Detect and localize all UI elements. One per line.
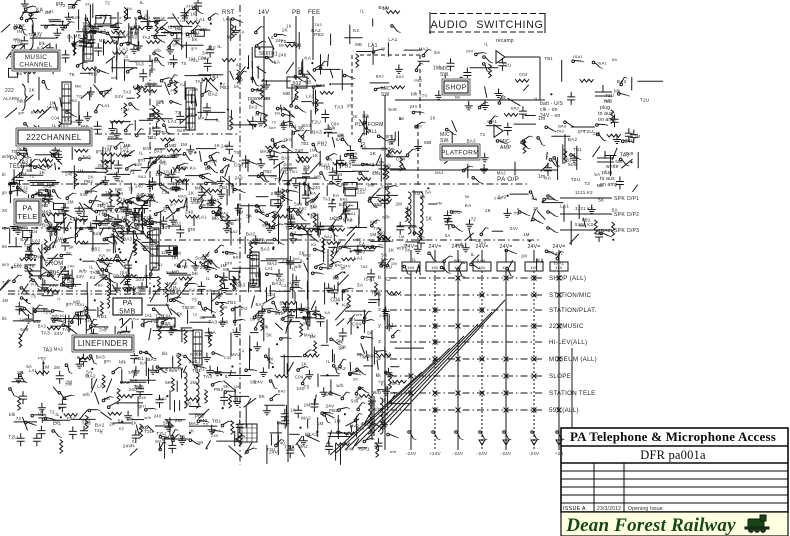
- resistor: [111, 31, 125, 34]
- ground: [233, 327, 241, 336]
- svg-text:C04: C04: [519, 72, 528, 77]
- svg-text:LA1: LA1: [119, 47, 128, 53]
- switch: [172, 187, 184, 190]
- svg-text:5A: 5A: [118, 419, 125, 425]
- svg-text:2M: 2M: [98, 163, 105, 168]
- resistor: [18, 397, 21, 411]
- switch: [62, 324, 73, 330]
- svg-text:-24V: -24V: [406, 451, 417, 456]
- resistor: [152, 105, 155, 119]
- svg-text:MB: MB: [99, 38, 106, 43]
- wire: [166, 209, 179, 219]
- wire: [29, 275, 53, 277]
- wire: [111, 59, 113, 72]
- switch: [144, 218, 153, 226]
- ground: [208, 425, 216, 434]
- svg-text:1M: 1M: [20, 172, 27, 177]
- wire: [24, 238, 28, 244]
- switch: [344, 154, 356, 157]
- capacitor: [46, 43, 54, 56]
- junction: [121, 421, 123, 423]
- resistor: [333, 162, 347, 165]
- wire: [60, 217, 66, 225]
- resistor: [359, 394, 373, 397]
- wire: [71, 418, 95, 420]
- svg-text:MA2: MA2: [41, 209, 51, 214]
- switch: [212, 211, 224, 217]
- wire: [184, 277, 192, 286]
- wire: [263, 318, 265, 341]
- svg-text:BA3: BA3: [558, 123, 567, 128]
- wire: [247, 398, 251, 406]
- svg-text:5K: 5K: [465, 194, 470, 199]
- wire: [151, 35, 166, 37]
- svg-text:blk: blk: [41, 246, 48, 251]
- switch: [234, 188, 246, 193]
- svg-text:5K: 5K: [177, 312, 183, 317]
- switch: [14, 27, 26, 31]
- svg-text:blk: blk: [417, 237, 424, 242]
- wire: [332, 137, 335, 148]
- capacitor: [312, 306, 320, 319]
- wire: [31, 25, 33, 34]
- switch: [159, 183, 170, 189]
- capacitor: [80, 34, 88, 47]
- svg-text:blk: blk: [305, 432, 312, 437]
- wire: [206, 372, 236, 374]
- resistor: [158, 326, 161, 340]
- resistor: [285, 44, 299, 47]
- switch: [189, 439, 200, 445]
- svg-text:AUDIO SWITCHING: AUDIO SWITCHING: [431, 19, 544, 31]
- svg-text:72: 72: [49, 410, 55, 415]
- wire: [144, 158, 154, 160]
- switch: [392, 330, 401, 338]
- wire: [87, 309, 97, 311]
- svg-text:240: 240: [154, 413, 162, 418]
- wire: [34, 310, 51, 312]
- junction: [350, 250, 352, 252]
- component box: [23, 230, 32, 237]
- ground: [149, 365, 157, 374]
- resistor: [74, 173, 77, 187]
- svg-text:KA: KA: [379, 160, 385, 165]
- capacitor: [321, 110, 329, 123]
- svg-text:KA: KA: [209, 330, 216, 336]
- resistor: [117, 388, 120, 402]
- wire: [135, 18, 137, 35]
- svg-text:ALL: ALL: [368, 129, 378, 135]
- switch: [45, 53, 57, 56]
- switch: [212, 352, 224, 356]
- svg-text:IL: IL: [271, 35, 275, 40]
- junction: [94, 299, 96, 301]
- switch: [330, 261, 341, 267]
- switch: [20, 11, 27, 20]
- resistor: [231, 421, 234, 435]
- wire: [151, 60, 153, 74]
- svg-text:1K: 1K: [312, 153, 319, 158]
- wire: [333, 234, 335, 242]
- ground: [91, 23, 99, 32]
- wire: [133, 230, 135, 244]
- switch: [153, 156, 161, 164]
- switch: [159, 435, 171, 439]
- svg-text:blk: blk: [180, 434, 187, 439]
- wire: [160, 187, 169, 193]
- wire: [169, 126, 188, 128]
- wire: [130, 183, 132, 194]
- wire: [114, 237, 117, 244]
- svg-text:72: 72: [129, 170, 135, 176]
- svg-text:24V: 24V: [269, 449, 279, 454]
- svg-text:72: 72: [105, 1, 110, 6]
- wire: [43, 419, 70, 421]
- svg-text:KA: KA: [31, 282, 38, 287]
- svg-text:IL: IL: [62, 27, 66, 32]
- wire: [139, 119, 153, 121]
- switch: [339, 211, 348, 219]
- svg-text:24V=: 24V=: [428, 244, 441, 250]
- capacitor: [38, 410, 46, 423]
- resistor: [124, 103, 127, 117]
- svg-text:1K: 1K: [50, 101, 56, 106]
- switch: [223, 158, 235, 162]
- ground: [232, 26, 240, 35]
- resistor: [134, 242, 137, 256]
- wire: [141, 212, 143, 221]
- wire: [112, 233, 114, 253]
- switch: [145, 351, 155, 359]
- wire: [78, 9, 80, 30]
- svg-text:24V: 24V: [466, 49, 474, 54]
- ground: [132, 366, 140, 375]
- resistor: [171, 378, 174, 392]
- junction: [110, 311, 112, 313]
- svg-text:5o9: 5o9: [93, 231, 102, 236]
- switch: [107, 403, 118, 408]
- svg-text:recamp: recamp: [496, 38, 514, 44]
- svg-text:72: 72: [584, 181, 590, 187]
- wire: [319, 151, 321, 166]
- switch: [246, 448, 257, 453]
- svg-text:240: 240: [221, 143, 229, 148]
- wire: [328, 54, 329, 66]
- junction: [130, 28, 132, 30]
- svg-text:grn: grn: [152, 125, 159, 130]
- wire: [336, 160, 338, 175]
- capacitor: [220, 272, 228, 285]
- switch: [290, 123, 300, 131]
- resistor: [105, 160, 108, 174]
- junction: [79, 258, 81, 260]
- switch: [306, 199, 316, 206]
- switch: [330, 338, 341, 345]
- svg-text:grn: grn: [56, 1, 64, 7]
- wire: [251, 61, 253, 83]
- svg-text:240: 240: [226, 251, 234, 256]
- svg-text:KA: KA: [36, 7, 44, 13]
- wire: [309, 311, 311, 327]
- capacitor: [294, 405, 302, 418]
- svg-text:240: 240: [128, 25, 136, 30]
- wire: [66, 325, 79, 335]
- wire: [302, 59, 304, 77]
- wire: [11, 172, 22, 181]
- svg-text:24V=: 24V=: [451, 244, 464, 250]
- svg-text:TB1: TB1: [147, 135, 157, 141]
- svg-text:PB2: PB2: [263, 169, 272, 174]
- switch: [115, 207, 127, 211]
- wire: [86, 282, 88, 294]
- wire: [205, 78, 219, 92]
- wire: [76, 31, 105, 33]
- svg-text:w/o: w/o: [2, 262, 10, 267]
- switch: [149, 194, 158, 203]
- resistor: [110, 121, 124, 124]
- switch: [261, 173, 270, 182]
- svg-text:KA: KA: [190, 165, 196, 170]
- svg-text:BA3: BA3: [256, 302, 265, 307]
- wire: [128, 23, 130, 45]
- junction: [34, 259, 36, 261]
- svg-text:MA2: MA2: [54, 346, 64, 351]
- svg-text:1K: 1K: [214, 143, 220, 148]
- svg-text:BA2: BA2: [62, 275, 71, 280]
- wire: [286, 324, 288, 333]
- wire: [156, 367, 181, 369]
- switch: [330, 181, 342, 187]
- wire: [189, 413, 205, 415]
- switch: [198, 302, 206, 311]
- svg-text:xxx: xxx: [432, 265, 440, 270]
- wire: [42, 361, 44, 376]
- junction: [11, 266, 13, 268]
- svg-text:T: T: [2, 280, 5, 285]
- junction: [210, 23, 212, 25]
- junction: [258, 206, 260, 208]
- wire: [82, 48, 84, 69]
- capacitor: [61, 238, 69, 251]
- switch: [212, 430, 224, 433]
- capacitor: [203, 103, 211, 116]
- resistor: [233, 277, 236, 291]
- svg-text:BA3: BA3: [340, 197, 348, 201]
- wire: [148, 368, 150, 384]
- ground: [87, 222, 95, 231]
- svg-text:C60: C60: [162, 321, 171, 326]
- svg-text:LA1: LA1: [102, 103, 111, 108]
- svg-text:MA2: MA2: [276, 278, 285, 283]
- junction: [199, 261, 201, 263]
- wire: [38, 125, 40, 144]
- svg-text:2K: 2K: [533, 206, 539, 211]
- wire: [141, 224, 143, 232]
- svg-text:grn: grn: [144, 273, 152, 279]
- wire: [181, 25, 183, 50]
- capacitor: [92, 216, 100, 229]
- wire: [169, 274, 192, 276]
- wire: [317, 214, 319, 236]
- wire: [89, 5, 91, 29]
- resistor: [296, 160, 310, 163]
- switch: [355, 387, 364, 395]
- svg-text:xxx: xxx: [531, 265, 539, 270]
- wire: [137, 201, 147, 215]
- switch: [80, 227, 92, 230]
- wire: [137, 396, 139, 416]
- junction: [343, 271, 345, 273]
- component box: [344, 202, 358, 209]
- switch: [125, 281, 133, 290]
- wire: [230, 71, 234, 80]
- wire: [166, 304, 172, 316]
- resistor: [261, 317, 264, 331]
- svg-text:240: 240: [271, 191, 280, 197]
- wire: [110, 153, 112, 170]
- wire: [323, 240, 325, 263]
- svg-text:5K: 5K: [266, 332, 272, 337]
- switch: [19, 26, 27, 35]
- wire: [380, 158, 382, 182]
- wire: [0, 280, 10, 293]
- resistor: [103, 41, 117, 44]
- svg-text:PA Telephone & Microphone Acce: PA Telephone & Microphone Access: [570, 429, 776, 444]
- wire: [100, 227, 118, 229]
- ground: [65, 12, 73, 21]
- wire: [145, 274, 147, 286]
- wire: [25, 95, 34, 102]
- svg-text:T5: T5: [297, 210, 303, 215]
- ground: [131, 208, 139, 217]
- wire: [111, 67, 137, 69]
- ground: [221, 284, 229, 293]
- svg-text:z: z: [378, 339, 381, 345]
- ground: [64, 270, 72, 279]
- wire: [176, 381, 178, 392]
- resistor: [127, 220, 130, 234]
- svg-text:C04: C04: [372, 171, 381, 176]
- wire: [147, 304, 170, 306]
- wire: [228, 176, 230, 196]
- wire: [95, 167, 111, 169]
- wire: [294, 292, 296, 302]
- wire: [200, 151, 202, 162]
- junction: [43, 362, 45, 364]
- switch: [114, 221, 125, 227]
- wire: [165, 82, 170, 95]
- resistor: [35, 371, 49, 374]
- ground: [87, 87, 95, 96]
- wire: [71, 135, 73, 160]
- switch: [298, 227, 310, 232]
- svg-text:5A: 5A: [425, 190, 432, 195]
- ground: [215, 289, 223, 298]
- svg-text:MB: MB: [314, 175, 321, 180]
- wire: [111, 121, 130, 123]
- svg-text:-Z-: -Z-: [2, 226, 8, 231]
- svg-text:24V: 24V: [208, 45, 216, 50]
- resistor: [298, 157, 312, 160]
- capacitor: [220, 392, 228, 405]
- svg-text:T2U: T2U: [156, 431, 166, 437]
- switch: [17, 186, 28, 193]
- wire: [280, 356, 301, 358]
- resistor: [102, 375, 105, 389]
- wire: [205, 119, 218, 121]
- svg-text:240: 240: [377, 230, 386, 235]
- resistor: [378, 199, 392, 202]
- svg-text:240: 240: [67, 264, 75, 269]
- svg-text:1M: 1M: [334, 418, 341, 423]
- switch: [141, 321, 152, 326]
- capacitor: [139, 69, 147, 82]
- svg-text:KA: KA: [325, 310, 331, 315]
- switch: [85, 30, 94, 38]
- ground: [334, 175, 342, 184]
- switch: [118, 332, 130, 335]
- svg-text:LA1: LA1: [137, 222, 146, 227]
- svg-text:5o9: 5o9: [477, 259, 486, 264]
- svg-text:PB2: PB2: [329, 408, 338, 413]
- switch: [251, 89, 263, 92]
- svg-text:1M: 1M: [521, 254, 527, 259]
- wire: [191, 94, 193, 104]
- svg-text:72: 72: [471, 217, 477, 222]
- switch: [359, 172, 369, 180]
- switch: [155, 211, 167, 216]
- wire: [308, 183, 311, 195]
- capacitor: [122, 326, 130, 339]
- wire: [310, 161, 321, 173]
- switch: [147, 235, 156, 244]
- resistor: [101, 153, 115, 156]
- wire: [155, 148, 166, 150]
- switch: [79, 158, 91, 161]
- switch: [103, 238, 115, 244]
- wire: [30, 234, 32, 259]
- wire: [12, 381, 26, 383]
- wire: [296, 302, 298, 319]
- junction: [118, 248, 120, 250]
- wire: [147, 118, 173, 120]
- switch: [145, 408, 157, 411]
- switch: [113, 229, 122, 238]
- switch: [297, 367, 308, 372]
- switch: [224, 391, 236, 394]
- wire: [100, 412, 111, 420]
- svg-text:24V: 24V: [76, 274, 84, 279]
- switch: [24, 6, 36, 11]
- svg-text:SPK O/P2: SPK O/P2: [614, 212, 639, 218]
- switch: [111, 23, 123, 28]
- capacitor: [316, 222, 324, 235]
- wire: [200, 102, 202, 117]
- svg-text:BA2: BA2: [143, 146, 152, 151]
- wire: [85, 314, 87, 338]
- resistor: [20, 258, 34, 261]
- switch: [326, 153, 337, 159]
- svg-text:5A: 5A: [336, 137, 342, 142]
- switch: [75, 229, 84, 237]
- resistor: [155, 21, 158, 35]
- wire: [268, 37, 274, 50]
- svg-text:HI-LEV(ALL): HI-LEV(ALL): [549, 339, 587, 346]
- resistor: [220, 302, 223, 316]
- svg-text:5o9: 5o9: [72, 15, 80, 20]
- switch: [217, 213, 226, 222]
- capacitor: [20, 145, 28, 158]
